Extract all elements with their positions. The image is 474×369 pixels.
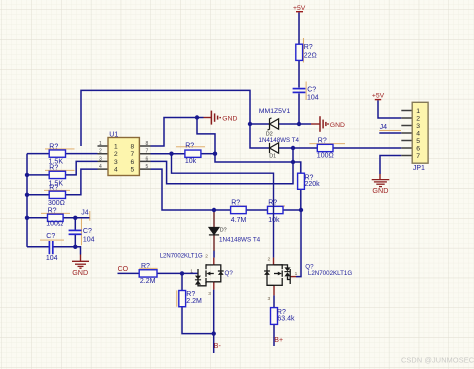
resistor R 2.2M horizontal [139,263,157,285]
svg-text:3: 3 [114,159,118,166]
resistor R 22ohm [296,44,317,61]
svg-text:4.7M: 4.7M [231,217,247,224]
ground symbol left [72,261,89,268]
wire row1 to U1 pin2 [66,153,98,155]
diode D? 1N4148WS mid vertical [209,212,261,251]
svg-text:L2N7002KLT1G: L2N7002KLT1G [160,254,203,260]
svg-text:R?: R? [49,185,58,192]
svg-text:GND: GND [372,186,388,195]
svg-text:2: 2 [205,254,208,260]
svg-text:R?: R? [268,199,277,206]
svg-text:1: 1 [114,143,118,150]
wire Q2 source to 63.4k [273,295,275,307]
svg-text:100Ω: 100Ω [317,152,334,159]
resistor R 10k pin7 [185,143,201,165]
svg-text:R?: R? [185,143,194,150]
zener diode D2 MM1Z5V1 [259,108,291,137]
power +5V right [372,93,385,100]
svg-text:104: 104 [46,255,58,262]
svg-text:300Ω: 300Ω [48,200,65,207]
svg-text:Q?: Q? [225,270,234,277]
svg-text:1N4148WS T4: 1N4148WS T4 [259,137,300,144]
wire C cap to D2 row [298,93,300,124]
wire pin7 branch crossing 10k body down to Q2 drain [172,154,274,258]
ground sideways GND right [320,116,328,132]
U1 pin stubs [98,146,151,169]
svg-text:JP1: JP1 [413,165,425,172]
resistor R 300ohm row3 [48,185,66,208]
wire node D1 down to pin6 line [151,148,294,184]
wire rail to R 1.5K row1 [27,153,49,155]
resistor R 2.2M vertical [179,291,202,307]
svg-text:1N4148WS T4: 1N4148WS T4 [219,237,261,244]
svg-text:1: 1 [295,271,298,277]
resistor R 1.5K row2 [49,165,66,188]
resistor R 63.4k [271,308,296,325]
wire rail down to D1 anode [250,124,270,148]
wire D2 row right to GND [279,123,311,125]
svg-text:6: 6 [416,146,420,153]
svg-text:J4: J4 [81,209,89,216]
wire rail bottom to cap C1 [27,246,49,248]
wire row4 to J4 stub [63,217,90,219]
svg-text:R?: R? [304,44,313,51]
transistor Q1 L2N7002KLT1G [160,254,234,297]
svg-text:5: 5 [146,164,149,170]
wire rail to R 1.5K row2 [27,174,49,176]
wire rail to R 100ohm row4 [27,217,48,219]
wire U1 pin8 to GND [151,118,204,147]
svg-text:220k: 220k [305,181,321,188]
svg-text:D?: D? [220,227,227,233]
wire D1 cathode to node [279,147,318,149]
svg-text:6: 6 [131,159,135,166]
svg-text:GND: GND [330,122,345,129]
orange highlight marks [40,38,401,307]
svg-text:6: 6 [146,156,149,162]
svg-text:R?: R? [48,207,57,214]
wire U1 pin7 to 10k [151,153,185,155]
svg-text:GND: GND [222,115,237,122]
wire 10k right [201,153,215,155]
wire Q1 source to B- [213,290,215,353]
svg-text:C?: C? [83,228,92,235]
svg-text:7: 7 [131,151,135,158]
svg-text:R?: R? [49,165,58,172]
resistor R 100ohm row4 [46,207,63,227]
svg-text:22Ω: 22Ω [304,52,317,59]
svg-text:CO: CO [118,266,129,273]
wire rail to R 300ohm row3 [27,194,49,196]
svg-text:8: 8 [146,141,149,147]
wire top horizontal net from U1 pin1 to D2 rail [81,90,250,146]
wire 220k bottom [300,189,302,210]
resistor R 10k mid [268,199,284,224]
svg-text:104: 104 [307,95,319,102]
wire diode D? to Q1 drain [213,251,215,258]
wire +5V to R 22ohm [298,12,300,44]
svg-text:+5V: +5V [372,93,385,100]
transistor Q2 L2N7002KLT1G [264,257,352,302]
svg-text:3: 3 [416,123,420,130]
ground symbol below JP1 [372,180,390,187]
svg-text:2.2M: 2.2M [140,278,156,285]
wire row3 to U1 pin4 [66,169,98,195]
wire 100ohm to JP1 pin6 [333,147,401,149]
resistor R 4.7M [231,199,247,224]
svg-text:B+: B+ [274,337,283,344]
wire gnd node down [75,247,80,255]
resistor R 220k [298,173,321,189]
wire gate node down through 2.2M vertical [181,273,183,290]
svg-text:1: 1 [416,108,420,115]
svg-text:CSDN @JUNMOSEC: CSDN @JUNMOSEC [401,356,474,365]
svg-text:L2N7002KLT1G: L2N7002KLT1G [308,270,352,277]
wire row2 to U1 pin3 [66,161,98,175]
svg-text:C?: C? [307,87,316,94]
resistor R 100ohm top right [317,138,334,160]
svg-text:3: 3 [99,156,102,162]
svg-text:B-: B- [214,343,222,350]
svg-text:5: 5 [416,138,420,145]
svg-text:100Ω: 100Ω [46,220,63,227]
svg-text:4: 4 [416,131,420,138]
wire 63.4k to B+ [273,324,275,346]
svg-text:2: 2 [114,151,118,158]
resistor R 1.5K row1 [49,143,66,165]
wire 4.7M to mid 10k [246,209,267,211]
wire R 22ohm to C cap [298,60,300,87]
svg-text:3: 3 [268,296,271,302]
wire U1 pin5 to 4.7M row [151,169,231,210]
svg-text:1: 1 [99,141,102,147]
svg-text:C?: C? [46,233,55,240]
svg-text:7: 7 [416,153,420,160]
svg-text:8: 8 [131,143,135,150]
diode D1 1N4148WS [259,137,300,159]
wire JP1 pin7 to GND [380,156,401,175]
capacitor C2 104 vertical [69,230,82,234]
svg-text:R?: R? [318,138,327,145]
svg-text:U1: U1 [109,132,118,139]
wire 220k node down to Q2 gate [296,210,301,277]
wire GND branch down to 220k top [197,118,301,174]
wire CO to 2.2M [118,272,140,274]
ground sideways GND mid [211,111,220,125]
connector JP1 body [412,102,428,172]
svg-text:+5V: +5V [293,5,306,12]
svg-text:5: 5 [131,167,135,174]
wire 2.2M vertical to B- line [182,307,214,334]
capacitor C 104 top [293,89,306,93]
svg-text:10k: 10k [185,158,197,165]
svg-text:4: 4 [114,167,118,174]
svg-text:4: 4 [99,164,102,170]
svg-text:R?: R? [141,263,150,270]
svg-text:2: 2 [268,257,271,263]
svg-text:D1: D1 [269,153,276,159]
wire D2 row left [250,123,270,125]
ground pin red segments [81,118,381,262]
svg-text:R?: R? [49,143,58,150]
wire 2.2M to Q1 gate [157,272,198,274]
svg-text:1: 1 [190,269,193,275]
wire +5V to JP1 pin1 [378,100,401,118]
power +5V top [293,5,306,12]
svg-text:63.4k: 63.4k [277,316,295,323]
svg-text:104: 104 [83,236,95,243]
wire cap C1 to gnd node [54,246,76,248]
wire J4 to JP1 pin4 [379,132,401,134]
svg-text:J4: J4 [380,124,388,131]
capacitor C1 104 horizontal [49,241,52,254]
op chip U1 body [99,132,149,176]
JP1 pin stubs [401,111,412,156]
wire mid 10k to 220k bottom node [283,209,301,211]
svg-text:3: 3 [208,291,211,297]
svg-text:2: 2 [99,149,102,155]
svg-text:GND: GND [72,268,88,277]
wire node to cap C2 [74,218,76,230]
wire left rail [26,154,28,247]
svg-text:2.2M: 2.2M [186,298,202,305]
svg-text:2: 2 [416,116,420,123]
svg-text:MM1Z5V1: MM1Z5V1 [259,108,291,115]
svg-text:7: 7 [146,149,149,155]
wire cap C2 to gnd node [74,235,76,247]
svg-text:R?: R? [231,199,240,206]
